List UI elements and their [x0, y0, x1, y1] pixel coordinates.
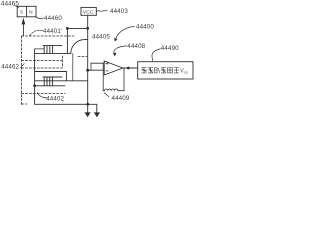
- wire lower cross: [35, 80, 88, 82]
- winding 44401 upper: [43, 45, 62, 47]
- wire A down: [66, 28, 68, 53]
- svg-text:VCC: VCC: [83, 9, 94, 15]
- label 44490: [152, 49, 161, 61]
- ground 2: [94, 112, 100, 117]
- wire VCC down: [87, 15, 89, 28]
- wire mid terminal: [35, 72, 66, 81]
- label 44462: [21, 64, 24, 68]
- label 44460: [36, 17, 44, 19]
- wire stub down: [72, 53, 74, 80]
- resistor 44409 coil bumps: [104, 89, 118, 91]
- wire input jog: [90, 63, 92, 70]
- node dot lower-left: [33, 84, 36, 87]
- svg-text:44400: 44400: [136, 23, 154, 30]
- svg-text:44402: 44402: [46, 95, 64, 102]
- leader 44403: [96, 10, 107, 13]
- feedback wire up: [118, 68, 124, 91]
- label 44401: [29, 30, 42, 36]
- op-amp 44405: [104, 61, 123, 75]
- ground 1: [85, 112, 91, 117]
- VCC box: [81, 7, 96, 15]
- controller text glyphs: [142, 68, 179, 73]
- svg-text:44405: 44405: [92, 33, 110, 40]
- node dot bottom: [86, 103, 89, 106]
- svg-text:S: S: [20, 9, 23, 14]
- winding 44402 lower: [43, 76, 62, 78]
- svg-text:N: N: [29, 9, 32, 14]
- wire - input: [88, 69, 105, 71]
- svg-text:44490: 44490: [161, 45, 179, 52]
- wire coil bottom: [35, 52, 71, 54]
- svg-text:co: co: [184, 70, 188, 74]
- svg-text:44408: 44408: [127, 43, 145, 50]
- label 44408 arrow: [114, 46, 127, 54]
- rail node A to node B: [67, 27, 87, 29]
- wire + input: [91, 62, 104, 64]
- left bus wire: [34, 49, 36, 104]
- svg-text:44460: 44460: [44, 15, 62, 22]
- svg-text:44409: 44409: [112, 95, 130, 102]
- controller box 44490: [138, 62, 193, 79]
- motor dashed box 44462: [21, 36, 23, 105]
- label 44409: [104, 93, 109, 97]
- node dot op-amp input: [86, 69, 89, 72]
- svg-text:44401ʹ: 44401ʹ: [43, 28, 62, 35]
- svg-text:44403: 44403: [110, 8, 128, 15]
- node B dot: [86, 27, 89, 30]
- magnet 44460 (S|N box): [17, 6, 36, 16]
- svg-text:44462: 44462: [1, 63, 19, 70]
- label 44400 arrow: [116, 26, 135, 39]
- node dot output: [127, 67, 130, 70]
- arrow rotor: [22, 24, 24, 36]
- label 44402: [37, 93, 47, 98]
- wire bottom: [35, 104, 97, 112]
- node A dot: [66, 27, 69, 30]
- main vertical wire: [87, 28, 89, 112]
- feedback wire down: [103, 63, 104, 90]
- leader 44465: [15, 6, 19, 8]
- wire arc crossover: [71, 40, 88, 54]
- wire output: [123, 67, 138, 69]
